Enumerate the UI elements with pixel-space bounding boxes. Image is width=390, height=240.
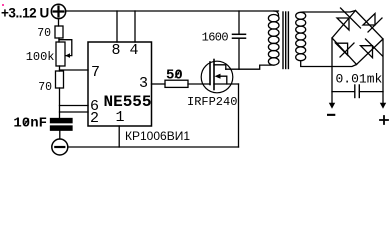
wire R1 to pot (58, 38, 60, 42)
capacitor C3 0.01mk (332, 91, 355, 93)
node +V supply terminal (51, 4, 65, 18)
label plus (380, 116, 388, 124)
svg-text:КР1006ВИ1: КР1006ВИ1 (125, 129, 190, 143)
label KP1006BИ1 (125, 129, 190, 143)
wire pin4 lead (134, 11, 136, 42)
wire pot wiper tie (59, 40, 72, 56)
svg-text:2: 2 (90, 110, 99, 127)
label minus (327, 114, 335, 116)
red dot artifact (2, 4, 4, 6)
svg-text:100k: 100k (26, 50, 55, 64)
wire plus output lead (382, 39, 384, 104)
svg-text:NE555: NE555 (104, 93, 152, 111)
wire pin6 (60, 105, 89, 107)
wire pot to node (59, 66, 61, 71)
channel bar (213, 60, 215, 90)
wire pin3 (152, 83, 166, 85)
transistor Q1 IRFP240 (201, 61, 233, 93)
transformer T1 primary winding (274, 11, 279, 16)
wire ground rail (68, 146, 239, 148)
drain stub (214, 65, 226, 69)
potentiometer 100k (56, 42, 65, 66)
source stub (214, 83, 239, 85)
node ground terminal (52, 139, 68, 155)
svg-text:1600: 1600 (202, 31, 229, 45)
svg-text:10nF: 10nF (13, 116, 47, 132)
svg-text:7: 7 (91, 64, 100, 81)
wire pin7 (60, 69, 89, 71)
wire minus output lead (331, 38, 333, 104)
svg-text:0.01mk: 0.01mk (336, 72, 383, 87)
transformer T1 secondary winding (296, 12, 306, 19)
wire pin2 (60, 111, 89, 113)
wire pin8 lead (116, 11, 118, 42)
diode D1 upper-left (337, 18, 349, 30)
svg-text:4: 4 (130, 42, 139, 59)
transformer core (282, 12, 284, 69)
svg-text:70: 70 (37, 27, 51, 40)
wire C1 to ground terminal (59, 130, 61, 139)
svg-text:+3..12 U: +3..12 U (1, 6, 49, 21)
op-amp U1 NE555 box (88, 42, 152, 126)
wire source lead (238, 84, 240, 147)
wire top rail (66, 10, 279, 12)
wire drain node (226, 65, 274, 69)
svg-text:IRFP240: IRFP240 (187, 95, 237, 109)
wire R3 to gate (188, 83, 210, 85)
capacitor C2 1600 (238, 11, 240, 34)
svg-text:50: 50 (166, 68, 183, 84)
svg-text:3: 3 (139, 75, 148, 92)
body stub arrow (218, 76, 227, 84)
diode D3 lower-left (336, 43, 348, 55)
diode D2 upper-right (363, 14, 375, 26)
capacitor C1 10nF (51, 119, 73, 123)
svg-text:8: 8 (112, 42, 121, 59)
resistor R3 50 (165, 80, 188, 87)
gate bar (209, 62, 211, 85)
wire secondary bottom to bridge (301, 61, 357, 67)
resistor R1 70 (55, 26, 63, 38)
resistor R2 70 (56, 71, 64, 88)
wire R2 to cap node (59, 88, 61, 119)
svg-text:1: 1 (116, 109, 125, 126)
wire secondary top to bridge (301, 11, 356, 13)
diode bridge frame (332, 11, 383, 65)
diode D4 lower-right (361, 46, 373, 58)
svg-text:70: 70 (38, 81, 52, 94)
wire supply to R1 (58, 19, 60, 26)
wire pin1 lead (118, 126, 120, 147)
label +3..12 U (1, 6, 49, 21)
